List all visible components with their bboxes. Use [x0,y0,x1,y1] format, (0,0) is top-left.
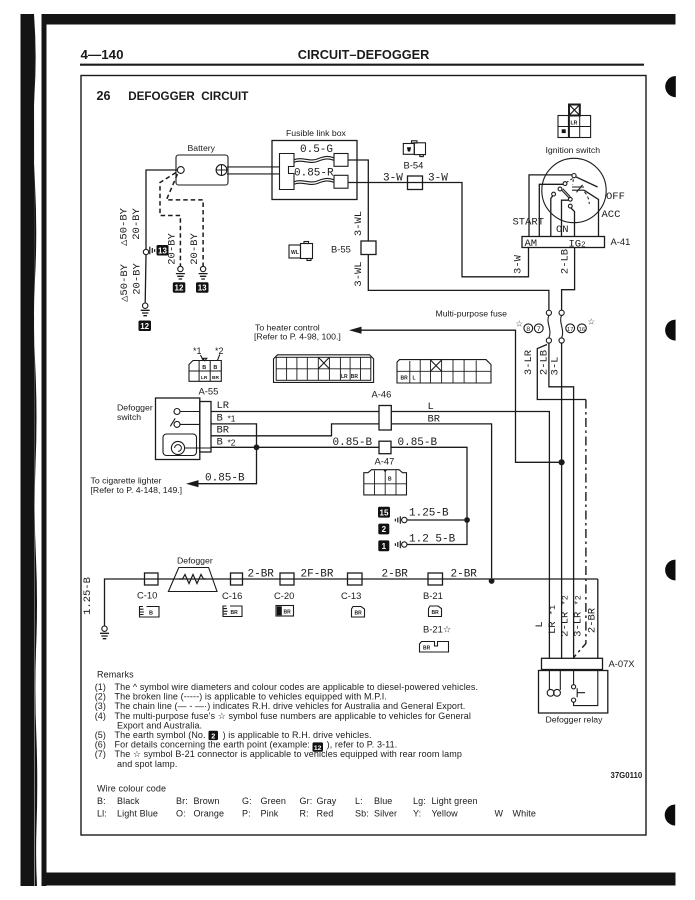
defogger switch SW1 [156,398,212,460]
wire 2-BR defogger line to relay [597,579,599,658]
svg-text:B: B [217,413,223,425]
svg-text:Silver: Silver [374,808,397,818]
svg-text:Ignition switch: Ignition switch [546,145,601,155]
svg-text:To cigarette lighter: To cigarette lighter [91,476,162,486]
svg-text:1.2 5-B: 1.2 5-B [409,534,456,546]
connector A-41 bar [522,237,605,248]
svg-text:1.25-B: 1.25-B [409,508,449,520]
svg-text:0.85-R: 0.85-R [294,168,334,180]
svg-text:37G0110: 37G0110 [611,771,643,780]
svg-text:BR: BR [428,414,441,426]
svg-text:1: 1 [382,542,387,551]
svg-text:20-BY: 20-BY [189,233,201,265]
svg-text:Multi-purpose fuse: Multi-purpose fuse [436,309,508,319]
svg-text:0.85-B: 0.85-B [205,473,245,485]
node junction B*1/B*2 [254,444,260,450]
earth point (circle) 15/2 [395,516,407,524]
fuse numbers 17 16 with star [566,317,596,333]
svg-text:15: 15 [380,508,389,517]
earth tag 12 (dashed wire A) [173,282,186,293]
svg-text:switch: switch [117,412,141,422]
earth tag 2 [378,524,389,535]
connector icon C-16 [223,606,242,617]
svg-text:B-55: B-55 [331,244,351,255]
svg-text:Battery: Battery [188,143,216,153]
remarks block [95,670,478,769]
svg-text:O:: O: [176,808,186,818]
svg-text:Yellow: Yellow [432,808,459,818]
svg-text:Defogger: Defogger [117,403,153,413]
wire BR from A-46 to defogger line [391,424,491,578]
page frame bottom black bar [47,873,676,886]
binder dot 2 [665,320,675,341]
earth tag 1 [378,540,389,551]
page frame top black bar [42,14,676,25]
svg-text:17: 17 [567,327,573,333]
svg-text:Red: Red [317,808,334,818]
wire ignition IG2 contact to A-41 [571,208,575,237]
svg-text:3-LR: 3-LR [523,349,535,375]
earth tag 13 (dashed wire B) [196,282,209,293]
svg-text:Wire colour code: Wire colour code [97,784,166,794]
svg-text:), refer to P. 3-11.: ), refer to P. 3-11. [324,740,397,750]
wire L from A-46 to relay [391,412,549,659]
svg-text:3-LR *2: 3-LR *2 [573,595,585,637]
svg-text:BR: BR [217,425,230,437]
connector C-20 (on wire) [280,573,294,585]
svg-text:2-BR: 2-BR [587,607,599,633]
svg-text:ACC: ACC [602,209,621,221]
page binding wide black bar (left, ragged) [21,14,38,886]
svg-text:3-W: 3-W [513,254,525,274]
svg-text:4—140: 4—140 [81,47,124,62]
wire to earth 15/2 [407,519,464,521]
svg-text:Brown: Brown [194,796,220,806]
svg-text:ON: ON [556,224,569,236]
svg-text:△50-BY: △50-BY [119,207,131,246]
svg-text:☆: ☆ [516,319,524,329]
svg-text:0.85-B: 0.85-B [333,437,373,449]
svg-text:△50-BY: △50-BY [119,263,131,302]
svg-text:3-W: 3-W [383,173,403,185]
connector grid A-46 (right view) [397,360,491,383]
svg-text:*2: *2 [228,438,236,448]
svg-text:The ^ symbol wire diameters an: The ^ symbol wire diameters and colour c… [115,682,479,692]
svg-text:B-21: B-21 [423,590,443,601]
svg-text:B-21☆: B-21☆ [423,624,451,635]
connector icon C-10 [140,607,160,618]
ground (dashed wire B) [199,266,208,279]
svg-text:A-46: A-46 [372,389,392,400]
svg-text:LR: LR [217,400,230,412]
diagram border box [81,76,646,836]
svg-text:Green: Green [261,796,287,806]
svg-text:C-10: C-10 [137,590,157,601]
wire 3-LR fuse output (chain line below) [537,345,586,658]
svg-text:3-L: 3-L [550,357,562,376]
fuse numbers 8 7 with star [516,319,544,334]
svg-text:Sb:: Sb: [355,808,369,818]
wire ignition contact 2 to A-41 [539,184,563,236]
wire to heater control (arrow) [349,327,559,463]
ground (dashed wire A) [176,266,185,279]
svg-text:*1: *1 [228,414,236,424]
connector icon B-21 star [420,642,449,653]
connector B-55 (on wire) [361,241,376,255]
wire ignition ON contact to A-41 [562,200,569,236]
B-54 connector icon [403,141,425,157]
svg-text:Defogger: Defogger [177,556,213,566]
svg-text:20-BY: 20-BY [167,233,179,265]
svg-text:☆: ☆ [588,317,596,327]
svg-text:(2): (2) [95,692,106,702]
svg-text:2-BR: 2-BR [248,569,275,581]
svg-text:LR *1: LR *1 [547,605,559,634]
svg-text:) is applicable to R.H. drive: ) is applicable to R.H. drive vehicles. [220,730,372,740]
svg-text:For details concerning the ear: For details concerning the earth point (… [115,740,310,750]
svg-text:0.5-G: 0.5-G [300,144,333,156]
earth tag 13 [157,245,169,256]
svg-text:2-LB: 2-LB [560,249,572,274]
wire 50-BY lower segment to ground [144,255,147,303]
wire battery to fusible link box (double line) [227,167,280,174]
svg-text:Gr:: Gr: [300,796,313,806]
svg-text:The chain line (— - —·) indica: The chain line (— - —·) indicates R.H. d… [115,701,466,711]
ground (defogger left) [100,626,109,639]
wire colour code block [97,784,536,819]
svg-text:C-13: C-13 [341,590,361,601]
earth tag 15 [378,507,390,518]
svg-text:16: 16 [579,327,585,333]
svg-text:(6): (6) [95,740,106,750]
wire 50-BY battery negative to ground [146,170,177,249]
svg-text:AM: AM [525,238,538,250]
svg-text:(1): (1) [95,682,106,692]
svg-text:G:: G: [242,796,252,806]
wire defogger main line 2-BR [105,579,598,626]
svg-text:3-WL: 3-WL [353,261,365,286]
svg-text:BR: BR [401,376,409,382]
wire 0.85-B to earth points [391,447,467,520]
svg-text:Gray: Gray [317,796,337,806]
fuse F2 (16/17) terminals and element [559,310,564,343]
svg-text:2F-BR: 2F-BR [301,569,334,581]
wire BR switch to A-46 [211,424,379,436]
connector C-16 (on wire) [231,573,243,585]
svg-text:The ☆ symbol B-21 connector is: The ☆ symbol B-21 connector is applicabl… [115,749,462,759]
svg-text:R:: R: [300,808,309,818]
page frame thin black bar (left) [42,14,47,886]
earth tag 12 [139,321,152,332]
svg-text:20-BY: 20-BY [132,263,144,295]
svg-text:3-W: 3-W [428,173,448,185]
connector C-13 (on wire) [348,573,363,585]
svg-text:Export and Australia.: Export and Australia. [117,720,202,730]
ignition switch S1 [542,158,606,222]
earth tag 2 in remark 5 [209,731,219,741]
svg-text:8: 8 [526,326,530,333]
svg-text:LR: LR [571,121,578,127]
header underline [80,64,644,66]
binder dot 4 [665,805,676,826]
wire to earth 1 [407,520,467,545]
svg-text:B: B [388,477,392,483]
svg-text:2-LR *2: 2-LR *2 [560,595,572,637]
svg-text:Ll:: Ll: [97,808,107,818]
wire B *1 switch to junction [211,424,257,445]
connector grid A-46 (left view) [274,355,374,383]
fuse terminal square bottom [334,175,348,188]
svg-text:*1: *1 [193,346,202,356]
connector C-10 (on wire) [145,573,159,585]
svg-text:B:: B: [97,796,106,806]
connector icon B-21 [429,606,442,617]
wire 3-WL below B-55 to multi-purpose fuse [368,255,549,311]
svg-text:A-41: A-41 [611,236,631,247]
svg-text:12: 12 [314,745,322,752]
svg-text:LR: LR [201,375,208,381]
svg-text:Br:: Br: [176,796,188,806]
svg-text:13: 13 [198,284,207,293]
svg-text:BR: BR [355,611,363,617]
svg-text:The broken line (-----) is app: The broken line (-----) is applicable to… [115,692,387,702]
connector grid above ignition switch (with X cell) [558,105,591,138]
wire B *2 switch to A-47 [211,446,379,448]
wire LR switch to A-46 [211,411,379,413]
svg-text:(7): (7) [95,749,106,759]
svg-text:[Refer to P. 4-148, 149.]: [Refer to P. 4-148, 149.] [91,485,183,495]
svg-text:Remarks: Remarks [97,670,134,680]
fuse terminal square top [334,154,348,167]
svg-text:(5): (5) [95,730,106,740]
connector B-54 (on wire) [408,176,423,190]
wire ignition contact 3 to A-41 [551,196,553,237]
svg-text:and spot lamp.: and spot lamp. [117,759,177,769]
wire 2-LB fuse output [549,343,574,658]
connector A-46 (inline) [379,406,391,431]
fusible link box [272,141,357,200]
svg-text:1.25-B: 1.25-B [82,577,94,615]
svg-text:CIRCUIT–DEFOGGER: CIRCUIT–DEFOGGER [298,47,430,62]
earth tag 12 in remark 6 [313,742,324,752]
svg-text:W: W [495,808,504,818]
svg-text:Y:: Y: [413,808,421,818]
wire 0.5-G output to B-55 [348,160,368,241]
wire IG2 2-LB to multi-purpose fuse [562,248,575,311]
B-55 connector icon [289,242,313,261]
defogger heater grid element [168,568,217,592]
connector A-47 (inline) [379,441,391,454]
svg-text:2: 2 [211,731,215,740]
binder dot 3 [665,560,675,581]
svg-text:L: L [428,401,434,413]
svg-text:12: 12 [140,322,149,331]
connector grid A-47 (view) [364,470,407,495]
svg-text:L: L [413,376,416,382]
svg-text:DEFOGGER CIRCUIT: DEFOGGER CIRCUIT [128,89,248,103]
svg-text:The earth symbol (No.: The earth symbol (No. [115,730,206,740]
svg-text:BR: BR [284,610,292,616]
svg-text:Blue: Blue [374,796,392,806]
connector grid A-55 [189,361,221,382]
svg-text:OFF: OFF [606,191,625,203]
svg-text:Light green: Light green [432,796,478,806]
svg-text:BR: BR [231,610,239,616]
svg-text:A-47: A-47 [375,456,395,467]
svg-text:Fusible link box: Fusible link box [286,128,347,138]
svg-text:L: L [534,621,546,627]
svg-text:B: B [202,365,206,371]
connector B-21 (on wire) [428,573,443,585]
svg-text:Lg:: Lg: [413,796,426,806]
wire broken line A from battery to ground 12 [160,173,180,267]
svg-text:Pink: Pink [261,808,279,818]
connector A-07X bar [542,658,603,669]
svg-text:B: B [149,611,153,617]
svg-text:C-16: C-16 [222,590,242,601]
svg-text:P:: P: [242,808,251,818]
svg-text:C-20: C-20 [274,590,294,601]
node junction BR on 2-BR line [489,578,495,584]
fusible link holder block [280,154,295,190]
svg-text:BR: BR [432,610,440,616]
wire ignition ACC/OFF to A-41 [584,190,599,236]
node junction 0.85-B at earth 15/2 [464,517,470,523]
svg-text:2: 2 [382,525,387,534]
wire broken line B from battery to ground 13 [166,174,203,266]
svg-text:BR: BR [212,375,219,381]
svg-text:2-BR: 2-BR [451,569,478,581]
battery B1 [176,155,228,185]
ground (bottom left of battery wire) [141,303,150,316]
fuse F1 (7/8) terminals and element [546,310,551,343]
connector icon C-20 [276,606,294,617]
defogger relay RY1 [539,670,608,714]
wire 3-L fuse output to relay [561,343,563,658]
svg-text:B: B [213,365,217,371]
svg-text:Black: Black [117,796,140,806]
node junction dot on 3-L wire [559,459,565,465]
svg-text:White: White [513,808,537,818]
svg-text:WL: WL [291,250,299,256]
svg-text:26: 26 [97,89,111,103]
svg-text:12: 12 [175,284,184,293]
svg-text:BR: BR [423,646,431,652]
svg-text:20-BY: 20-BY [131,208,143,240]
svg-text:B-54: B-54 [404,160,424,171]
svg-text:B: B [217,437,223,449]
svg-text:Light Blue: Light Blue [117,808,158,818]
svg-text:(3): (3) [95,701,106,711]
fusible link element 0.5-G (wavy) [294,156,334,162]
connector icon C-13 [352,607,365,618]
svg-text:Orange: Orange [194,808,225,818]
svg-text:3-WL: 3-WL [353,211,365,236]
svg-text:[Refer to P. 4-98, 100.]: [Refer to P. 4-98, 100.] [254,332,341,342]
wire ignition START to A-41 [529,175,572,237]
svg-text:(4): (4) [95,711,106,721]
wire cigarette lighter branch [186,450,257,487]
earth point (circle) 1 [395,541,407,549]
node earth point on wire (tag 13) [143,247,154,255]
marker ticks above A-55 [201,355,220,361]
fusible link element 0.85-R (wavy) [294,178,334,184]
svg-text:A-07X: A-07X [609,658,636,669]
svg-text:BR: BR [351,374,359,380]
svg-text:2-BR: 2-BR [382,569,409,581]
wire 0.85-R output 3-W to B-54 and A-41 AM [348,183,529,277]
svg-text:A-55: A-55 [199,386,219,397]
svg-text:L:: L: [355,796,363,806]
binder dot 1 [665,76,676,97]
svg-text:The multi-purpose fuse's ☆ sym: The multi-purpose fuse's ☆ symbol fuse n… [115,711,471,721]
svg-text:Defogger relay: Defogger relay [546,715,604,725]
svg-text:LR: LR [341,374,348,380]
svg-text:7: 7 [537,326,541,333]
